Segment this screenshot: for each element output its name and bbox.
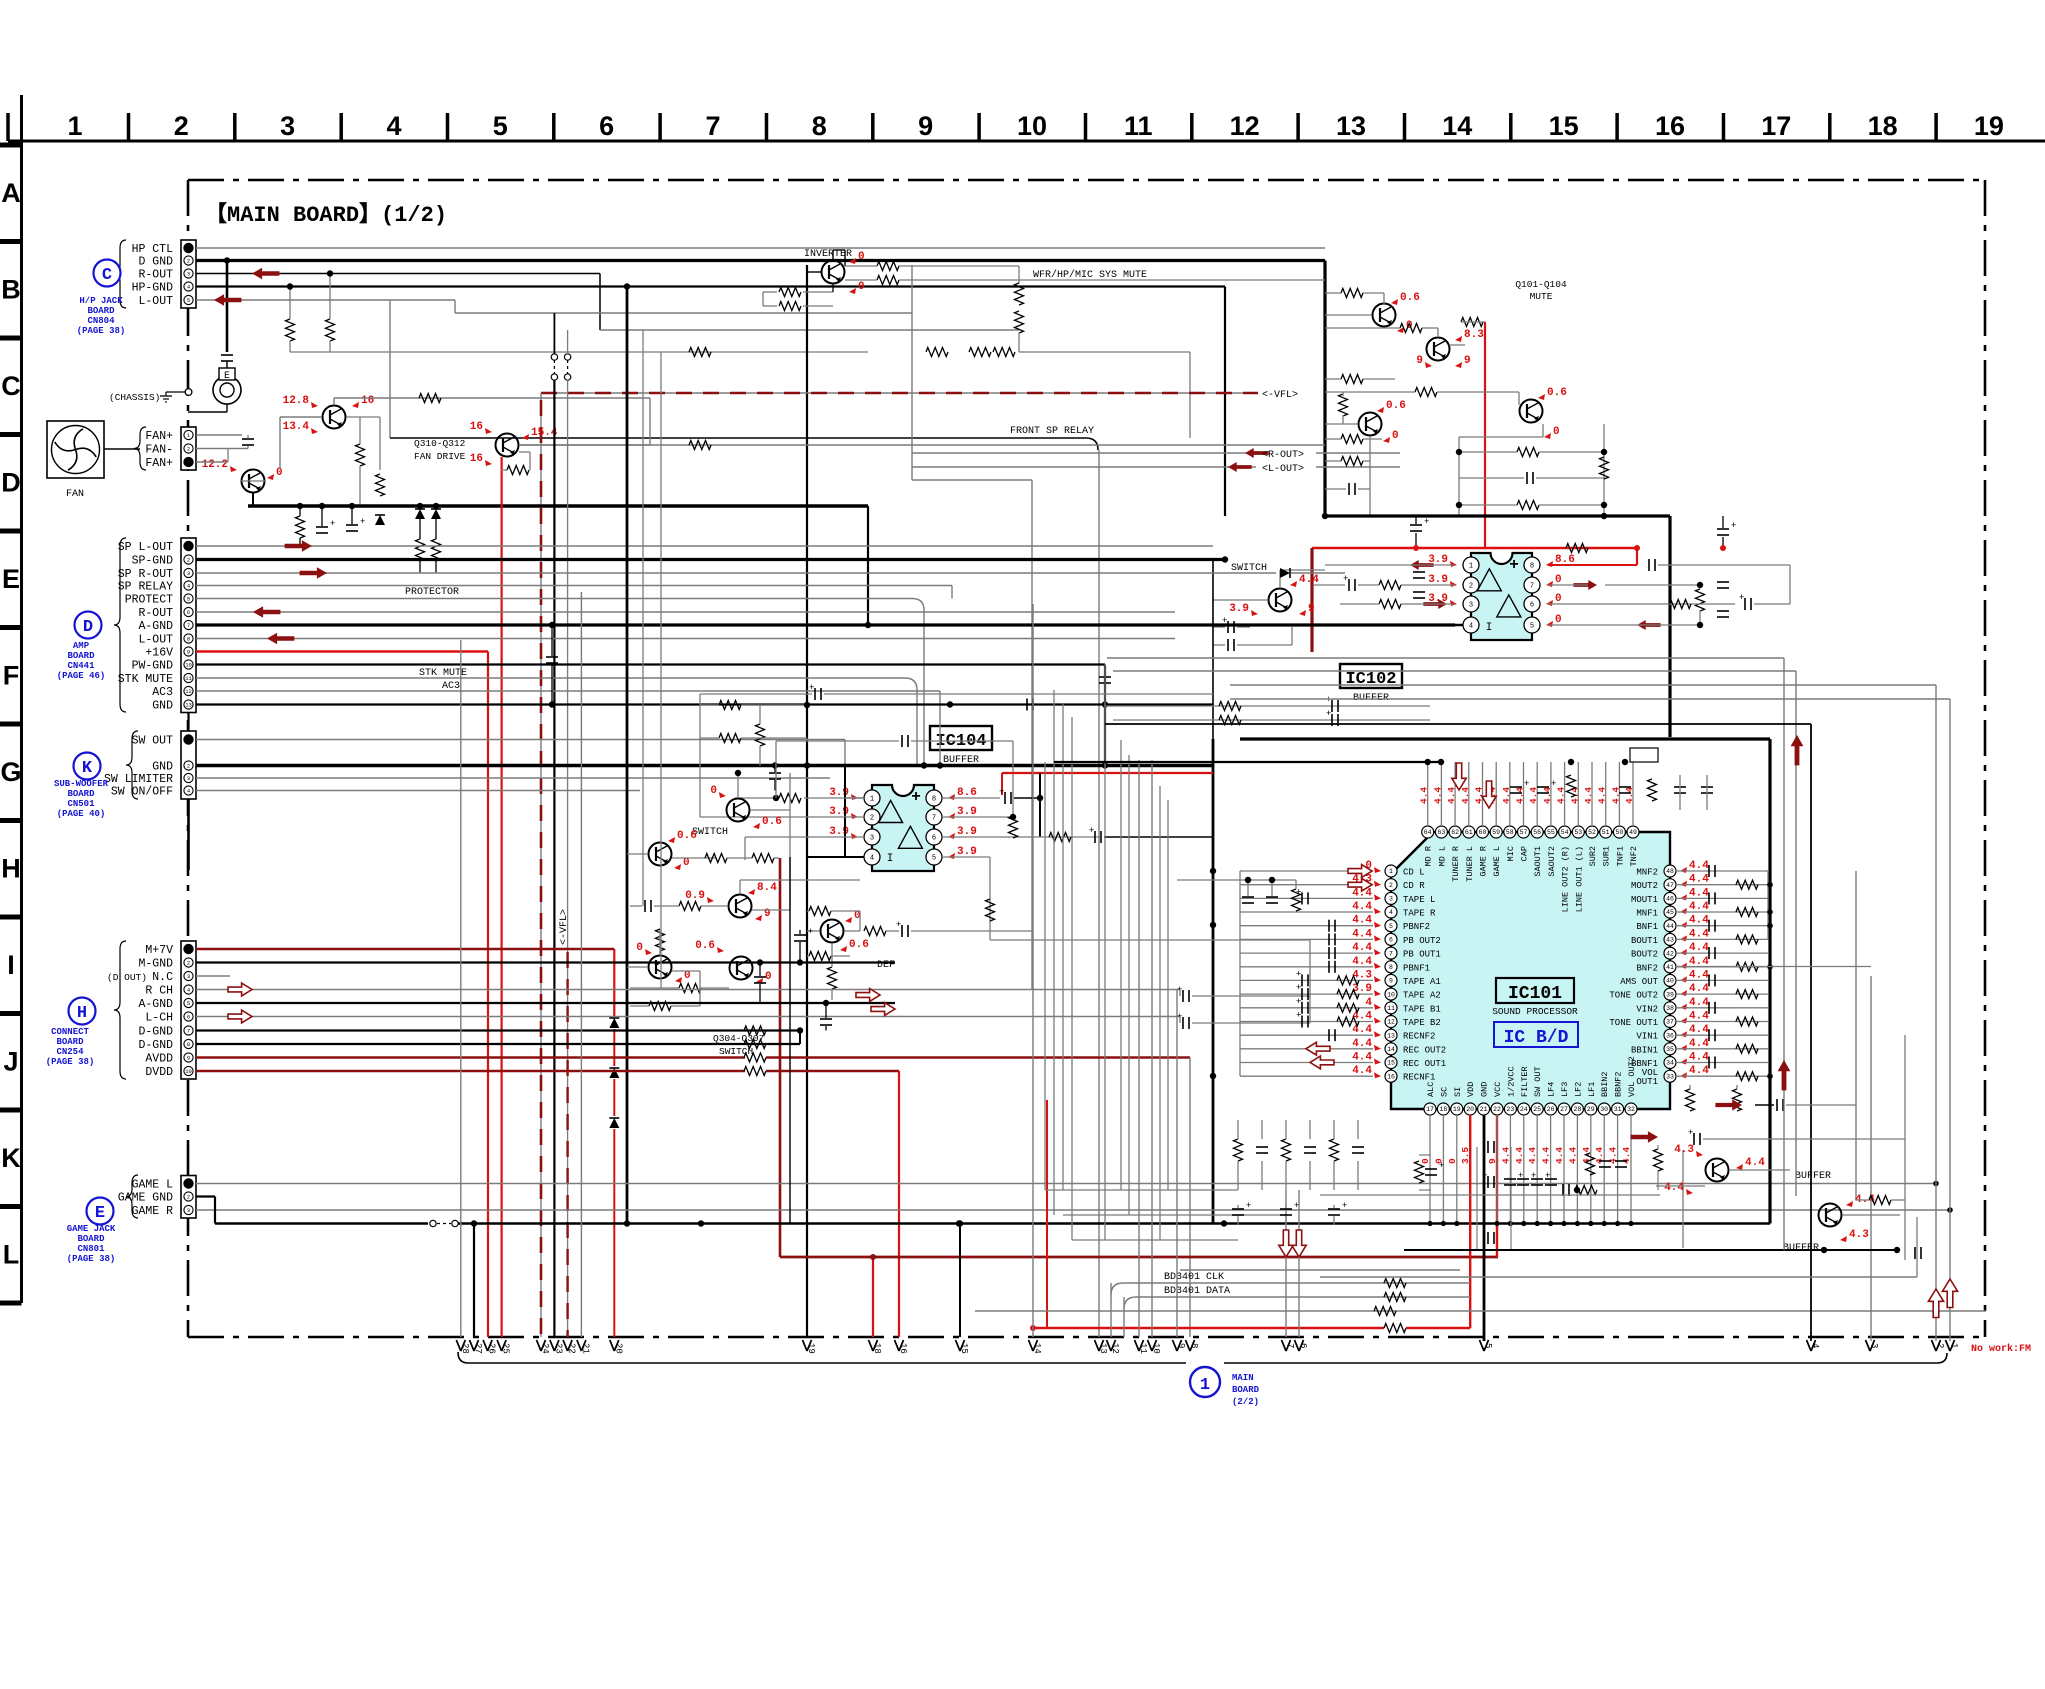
wire [553,313,555,354]
svg-text:16: 16 [470,421,483,433]
wire [844,766,846,858]
node v [948,833,955,839]
wire red [1636,548,1638,565]
wire IC101 top pin [1454,762,1456,826]
wire [1548,584,1588,586]
wire [1729,1169,1790,1171]
wire IC101 pin [1240,1062,1373,1064]
svg-text:47: 47 [1666,882,1674,889]
svg-text:4: 4 [870,855,874,863]
wire [1230,698,1950,700]
svg-text:+: + [1342,1201,1347,1211]
svg-text:SW ON/OFF: SW ON/OFF [111,786,173,799]
switch contact [551,354,557,360]
svg-text:3.9: 3.9 [1428,574,1448,586]
wire AC3 [196,690,940,692]
resistor [744,1053,766,1062]
resistor [689,441,711,450]
svg-text:14: 14 [1442,111,1472,141]
svg-text:E: E [95,1204,105,1223]
open arrow [228,983,252,996]
svg-text:39: 39 [1666,991,1674,998]
resistor [356,444,365,466]
wire SP RELAY [196,585,952,587]
wire IC101 bottom pin [1590,1115,1592,1224]
wire [1239,871,1241,1076]
capacitor [1266,896,1278,898]
wire fan gnd bus [248,504,868,507]
wire IC101 top pin [1440,762,1442,826]
svg-text:SUR1: SUR1 [1602,846,1612,866]
wire [1325,314,1372,316]
wire [1192,1022,1310,1024]
wire [1325,327,1400,329]
svg-text:+: + [999,787,1004,797]
bottom bracket [458,1352,1186,1363]
wire [1668,516,1671,737]
svg-text:2: 2 [187,1193,190,1200]
capacitor [820,1018,832,1020]
svg-text:15: 15 [1549,111,1579,141]
resistor [1049,833,1071,842]
svg-text:8: 8 [932,796,936,804]
arrow up [1791,735,1804,765]
svg-text:R-OUT: R-OUT [138,607,173,620]
connector fan [181,427,196,470]
resistor [864,927,886,936]
svg-text:22: 22 [1493,1106,1501,1113]
resistor [376,474,385,496]
wire red dashed vertical [540,400,543,1337]
resistor [1337,976,1359,985]
wire [741,737,807,739]
capacitor [1026,699,1028,711]
resistor [1384,1279,1406,1288]
resistor [1654,1149,1663,1171]
svg-text:MNF1: MNF1 [1636,909,1658,919]
svg-text:4: 4 [1365,997,1372,1009]
svg-text:TAPE R: TAPE R [1403,909,1436,919]
transistor switch [1269,589,1292,612]
svg-text:12.8: 12.8 [283,395,310,407]
wire IC101 bottom pin [1442,1115,1444,1224]
svg-text:SP RELAY: SP RELAY [118,581,173,594]
wire [1323,261,1326,517]
ref circle H [69,998,96,1025]
wire [1261,1161,1263,1190]
svg-text:GND: GND [152,700,173,713]
svg-text:0.6: 0.6 [849,939,869,951]
wire [1357,1120,1359,1139]
wire IC101 top pin [1564,762,1566,826]
resistor [1341,435,1363,444]
resistor [1400,324,1422,333]
wire [280,416,322,418]
wire [1316,452,1400,454]
wire [1703,1138,1905,1140]
capacitor [1599,1160,1611,1162]
svg-text:58: 58 [1506,829,1514,836]
resistor [1567,775,1576,797]
connector pin 28 [456,1340,461,1351]
svg-text:4.4: 4.4 [1689,997,1709,1009]
wire [226,361,228,368]
transistor Q304 [649,956,672,979]
capacitor [1487,1141,1489,1153]
wire [1291,572,1345,574]
wire IC101 right pin [1676,979,1768,981]
wire [1018,333,1020,352]
capacitor [1744,598,1746,610]
arrow [1631,1131,1658,1143]
svg-text:TAPE B2: TAPE B2 [1403,1018,1441,1028]
capacitor [1693,1133,1695,1145]
op-amp IC104 [872,785,934,871]
wire [279,417,281,469]
svg-text:4.4: 4.4 [1689,983,1709,995]
arrow [253,606,280,618]
node v [851,794,858,800]
wire IC101 pin [1240,1048,1373,1050]
svg-text:(PAGE 38): (PAGE 38) [67,1254,116,1264]
wire [1031,480,1033,990]
wire [1054,761,1441,763]
resistor [744,1067,766,1076]
svg-text:62: 62 [1451,829,1459,836]
svg-text:L-OUT: L-OUT [138,295,173,308]
wire [551,664,553,705]
wire [1658,564,1790,566]
wire D-GND2 [196,1043,800,1045]
svg-text:SAOUT2: SAOUT2 [1547,846,1557,877]
capacitor [1352,1146,1364,1148]
wire [1461,321,1485,323]
capacitor [1615,1160,1627,1162]
resistor [1015,283,1024,305]
IC102 label [1340,664,1402,688]
capacitor [754,976,766,978]
wire [916,690,918,766]
svg-text:13: 13 [1336,111,1366,141]
wire to pin16 [898,1071,900,1337]
wire [1755,1104,1774,1106]
resistor [877,276,899,285]
resistor [1517,501,1539,510]
wire [745,836,864,838]
IC104 label [930,726,992,750]
wire IC101 right pin [1676,897,1768,899]
svg-text:3.9: 3.9 [829,787,849,799]
svg-text:E: E [224,371,230,382]
resistor [1696,589,1705,611]
wire GAME L [196,1183,1936,1185]
capacitor [1674,786,1686,788]
svg-text:12: 12 [1230,111,1260,141]
wire [289,341,291,352]
svg-text:SUR2: SUR2 [1588,846,1598,866]
svg-text:38: 38 [1666,1005,1674,1012]
svg-text:<R-OUT>: <R-OUT> [1262,450,1304,461]
wire [1063,1214,1286,1216]
wire [350,351,868,353]
svg-text:14: 14 [1032,1343,1042,1354]
open arrow [228,1010,252,1023]
wire IC101 bottom pin [1617,1115,1619,1224]
svg-text:7: 7 [932,815,936,823]
svg-text:8: 8 [187,635,190,642]
wire [1105,705,1430,707]
svg-text:2: 2 [174,111,189,141]
wire IC101 bottom pin [1523,1115,1525,1224]
resistor [752,854,774,863]
wire bottom red bus [780,1256,1498,1259]
svg-text:L: L [3,1240,20,1270]
wire [1192,995,1310,997]
svg-text:3: 3 [187,570,190,577]
capacitor [1348,579,1350,591]
resistor [705,854,727,863]
wire IC101 top pin [1632,762,1634,826]
wire [1213,599,1268,601]
svg-text:GAME R: GAME R [132,1205,174,1218]
connector CN804 H/P jack [181,240,196,308]
wire [1291,627,1293,645]
svg-text:LF3: LF3 [1560,1082,1570,1097]
svg-text:4.4: 4.4 [1689,1065,1709,1077]
svg-text:2: 2 [870,815,874,823]
svg-text:5: 5 [1389,923,1393,930]
capacitor [1517,1178,1529,1180]
wire to pin10 [1151,760,1153,1337]
wire R-OUT amp [196,611,1175,613]
capacitor [1328,920,1330,932]
svg-text:SOUND PROCESSOR: SOUND PROCESSOR [1492,1006,1578,1017]
svg-text:22: 22 [567,1343,577,1354]
svg-text:E: E [2,564,20,594]
svg-text:2: 2 [187,445,190,452]
resistor [926,348,948,357]
resistor [1379,600,1401,609]
svg-text:0: 0 [1555,574,1562,586]
capacitor [769,772,781,774]
resistor [1341,375,1363,384]
transistor Q310 [323,406,346,429]
wire IC101 bottom pin [1630,1115,1632,1224]
wire [763,291,777,293]
svg-text:FAN+: FAN+ [145,430,173,443]
svg-text:7: 7 [1389,950,1393,957]
wire [1682,1150,1684,1248]
wire [1789,565,1791,604]
wire [671,1005,700,1007]
svg-text:4.4: 4.4 [1352,915,1372,927]
wire [845,279,877,281]
svg-text:25: 25 [1533,1106,1541,1113]
wire [701,987,729,989]
svg-text:25: 25 [501,1343,511,1354]
svg-text:2: 2 [187,762,190,769]
capacitor [1301,1002,1303,1014]
wire red [1002,772,1213,774]
svg-text:K: K [1,1143,21,1173]
wire IC101 bottom pin [1509,1115,1511,1224]
transistor [729,895,752,918]
node v [1450,581,1457,587]
wire [1104,665,1106,1241]
wire [759,705,761,724]
wire IC101 pin [1240,870,1373,872]
wire IC101 right pin [1676,884,1768,886]
svg-text:TAPE B1: TAPE B1 [1403,1004,1441,1014]
wire IC101 pin [1240,1075,1373,1077]
svg-text:+: + [1739,593,1744,603]
svg-text:23: 23 [1506,1106,1514,1113]
svg-text:M+7V: M+7V [145,944,173,957]
wire [551,625,553,656]
connector pin 26 [483,1340,488,1351]
wire [1656,1185,1705,1187]
capacitor [814,688,816,700]
wire R-OUT [196,273,600,275]
resistor [1669,600,1691,609]
svg-text:3: 3 [187,1207,190,1214]
resistor [416,539,425,561]
capacitor [1242,896,1254,898]
resistor [1586,1153,1595,1175]
wire SW LIMITER [196,777,830,779]
wire [762,292,764,306]
wire [334,397,650,399]
svg-text:3: 3 [1389,896,1393,903]
svg-text:K: K [82,759,93,778]
wire [911,930,1032,932]
node v [948,853,955,859]
wire [188,411,227,413]
node v [948,794,955,800]
svg-text:12: 12 [1387,1019,1395,1026]
node v [1450,600,1457,606]
svg-text:16: 16 [361,395,374,407]
capacitor [1227,621,1229,633]
op-amp IC102 [1471,553,1532,640]
wire SW OUT [196,739,845,741]
wire IC101 right pin [1676,925,1768,927]
resistor [296,516,305,538]
wire [290,351,350,353]
svg-text:BUFFER: BUFFER [1795,1171,1831,1182]
svg-text:STK MUTE: STK MUTE [118,673,173,686]
wire [1679,775,1681,810]
svg-text:10: 10 [1151,1343,1161,1354]
capacitor [1328,1208,1340,1210]
circled 1 main board 2/2 [1190,1367,1220,1397]
wire [1786,1104,1856,1106]
svg-text:VCC: VCC [1493,1082,1503,1097]
capacitor [1280,1208,1292,1210]
wire [1369,437,1371,516]
svg-text:TAPE A2: TAPE A2 [1403,991,1441,1001]
svg-text:1/2VCC: 1/2VCC [1506,1066,1516,1097]
wire [227,449,229,463]
wire red [1406,1327,1470,1329]
resistor [1686,1089,1695,1111]
svg-text:55: 55 [1547,829,1555,836]
svg-text:4.4: 4.4 [1689,874,1709,886]
wire [630,905,642,907]
resistor [779,302,801,311]
capacitor [1425,1168,1437,1170]
svg-text:8: 8 [1530,563,1534,571]
wire M-GND [196,961,895,963]
svg-text:13.4: 13.4 [283,421,310,433]
svg-text:0: 0 [684,970,691,982]
capacitor [1701,786,1713,788]
svg-text:+: + [1089,826,1094,836]
wire to pin21 [580,592,582,1337]
svg-text:5: 5 [187,1000,190,1007]
wire [1422,327,1438,329]
svg-text:WFR/HP/MIC SYS MUTE: WFR/HP/MIC SYS MUTE [1033,269,1147,281]
fan icon [47,421,104,478]
transistor Q101 [1373,304,1396,327]
svg-text:3: 3 [1869,1343,1879,1348]
wire [942,856,990,858]
wire [832,250,834,261]
open arrow [1452,763,1466,790]
wire [329,274,331,320]
svg-text:53: 53 [1574,829,1582,836]
wire [1313,584,1345,586]
resistor [993,348,1015,357]
svg-text:3.9: 3.9 [957,826,977,838]
svg-text:14: 14 [1387,1046,1395,1053]
svg-text:LINE OUT2 (R): LINE OUT2 (R) [1561,846,1571,912]
resistor [1219,702,1241,711]
wire [844,250,846,266]
IC101 sound processor body [1391,832,1670,1109]
svg-text:7: 7 [705,111,720,141]
wire [1316,466,1400,468]
svg-text:D: D [83,618,93,637]
arrow [1573,580,1597,590]
svg-text:3.9: 3.9 [829,806,849,818]
svg-text:4.4: 4.4 [1352,928,1372,940]
capacitor [1413,571,1425,573]
wire [1548,603,1735,605]
wire IC101 bottom pin [1496,1115,1498,1224]
wire [1309,940,1311,1023]
svg-text:0.6: 0.6 [695,940,715,952]
svg-text:IC B/D: IC B/D [1504,1028,1569,1048]
svg-text:6: 6 [1298,1343,1308,1348]
svg-text:16: 16 [1387,1073,1395,1080]
svg-text:MOUT2: MOUT2 [1631,881,1658,891]
open arrow REC OUT1 [1306,1042,1330,1055]
svg-text:GND: GND [152,761,173,774]
wire [1039,773,1041,837]
transistor [727,799,750,822]
svg-text:0: 0 [1555,614,1562,626]
svg-text:31: 31 [1614,1106,1622,1113]
wire [940,444,1325,446]
svg-text:3: 3 [1469,602,1473,610]
svg-text:5: 5 [932,855,936,863]
svg-text:TONE OUT2: TONE OUT2 [1609,991,1658,1001]
wire L-OUT [196,299,455,301]
wire [379,417,381,470]
resistor [1736,1044,1758,1053]
svg-text:AMP: AMP [73,641,90,651]
